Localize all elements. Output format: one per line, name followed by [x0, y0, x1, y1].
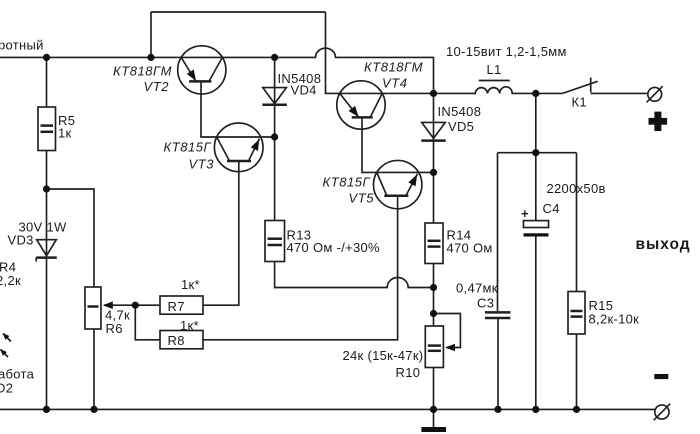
svg-text:КТ818ГМ: КТ818ГМ — [364, 60, 423, 75]
svg-text:C4: C4 — [543, 201, 560, 216]
svg-text:VD4: VD4 — [291, 83, 317, 98]
svg-text:L1: L1 — [487, 62, 502, 77]
svg-text:24к (15к-47к): 24к (15к-47к) — [343, 348, 424, 363]
svg-text:470 Ом: 470 Ом — [447, 241, 493, 256]
svg-text:D2: D2 — [0, 381, 13, 396]
svg-text:2,2к: 2,2к — [0, 273, 21, 288]
svg-text:C3: C3 — [477, 296, 494, 311]
svg-text:VT4: VT4 — [382, 76, 408, 91]
svg-text:470 Ом -/+30%: 470 Ом -/+30% — [287, 240, 381, 255]
svg-text:VT3: VT3 — [189, 157, 215, 172]
svg-text:R6: R6 — [106, 321, 123, 336]
svg-text:2200x50в: 2200x50в — [547, 181, 606, 196]
svg-text:+: + — [521, 206, 529, 221]
svg-text:КТ818ГМ: КТ818ГМ — [113, 64, 172, 79]
svg-text:8,2к-10к: 8,2к-10к — [589, 312, 640, 327]
svg-text:КТ815Г: КТ815Г — [323, 175, 371, 190]
svg-text:1к*: 1к* — [180, 318, 199, 333]
svg-text:VD5: VD5 — [448, 119, 474, 134]
svg-text:R7: R7 — [168, 299, 185, 314]
svg-text:абота: абота — [0, 367, 35, 382]
svg-text:КТ815Г: КТ815Г — [164, 140, 212, 155]
svg-text:0,47мк: 0,47мк — [456, 281, 498, 296]
svg-text:IN5408: IN5408 — [438, 104, 482, 119]
svg-text:VD3: VD3 — [8, 233, 34, 248]
svg-text:выход: выход — [636, 236, 691, 253]
svg-text:R8: R8 — [168, 333, 185, 348]
svg-text:1к*: 1к* — [181, 277, 200, 292]
svg-text:К1: К1 — [572, 95, 587, 110]
svg-text:10-15вит 1,2-1,5мм: 10-15вит 1,2-1,5мм — [446, 44, 567, 59]
svg-text:ротный: ротный — [0, 38, 44, 53]
svg-text:VT5: VT5 — [349, 191, 375, 206]
svg-text:VT2: VT2 — [144, 79, 170, 94]
svg-text:R10: R10 — [396, 365, 421, 380]
svg-text:1к: 1к — [58, 126, 72, 141]
